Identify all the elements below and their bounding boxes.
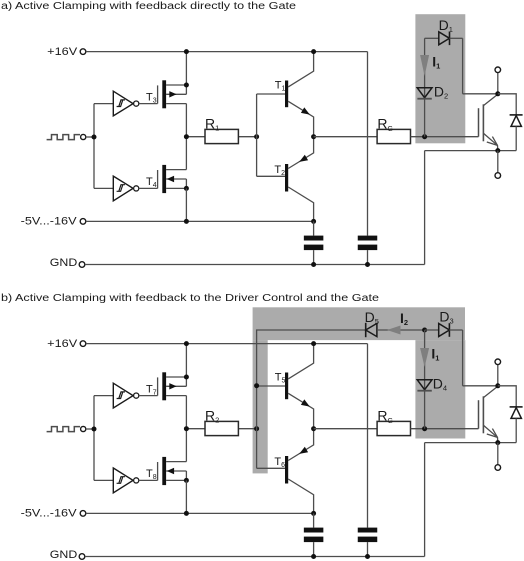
wire D1 cathode to collector sense	[462, 38, 464, 94]
wire T4 drain to output node	[185, 137, 187, 170]
node GND rail (a)	[50, 257, 425, 269]
shaded feedback region left strip (circuit b)	[253, 340, 268, 473]
current arrow I2	[387, 310, 408, 335]
wire emitter feedback to GND (a)	[424, 151, 426, 265]
junction gate clamp node	[422, 134, 427, 139]
wire input to inverter inputs	[94, 396, 113, 481]
wire T3 drain to output node	[185, 104, 187, 137]
junction -5V rail left	[184, 219, 189, 224]
transistor T6 PNP	[257, 429, 314, 514]
wire inverter U1b output to gate	[139, 187, 158, 189]
svg-text:+16V: +16V	[47, 46, 78, 58]
shaded feedback region top band (circuit b)	[253, 307, 465, 340]
wire D3 cathode to collector sense (b)	[462, 330, 464, 386]
wire emitter node (b)	[425, 442, 517, 444]
wire decoupling branch to C2	[367, 52, 369, 236]
svg-text:b) Active Clamping with feedba: b) Active Clamping with feedback to the …	[1, 293, 380, 304]
wire base line of push-pull driver	[256, 94, 258, 176]
wire RG to IGBT gate	[411, 136, 479, 138]
resistor R2	[205, 408, 238, 436]
svg-text:GND: GND	[50, 549, 78, 561]
transistor T1 NPN	[257, 52, 314, 137]
inverter U2b (Schmitt trigger)	[113, 468, 138, 493]
wire clamp branch to gate (b)	[424, 330, 426, 429]
node input square-wave (a)	[47, 134, 94, 139]
capacitor C4	[358, 528, 378, 557]
junction collector (b)	[495, 383, 500, 388]
wire T3 source/body tie to +16V	[185, 52, 187, 95]
wire gate clamp branch (a)	[424, 38, 426, 136]
wire inverter U1a output to gate	[139, 103, 158, 105]
junction T3 source	[184, 83, 189, 88]
resistor RG gate resistor	[377, 116, 410, 144]
wire T4 body tie	[185, 179, 187, 188]
capacitor C3	[304, 513, 324, 556]
wire output node to resistor R2	[186, 428, 256, 430]
junction T4 source	[184, 186, 189, 191]
diode D5 (feedback to driver control)	[365, 309, 379, 337]
junction clamp top node (b)	[422, 328, 427, 333]
junction feedback to base line	[254, 383, 259, 388]
inverter U1b (Schmitt trigger)	[113, 176, 138, 201]
transistor T8 n-channel MOSFET	[158, 457, 187, 485]
junction input node	[92, 427, 97, 432]
capacitor C2	[358, 236, 378, 265]
svg-text:-5V...-16V: -5V...-16V	[21, 215, 78, 227]
freewheeling diode (a)	[498, 94, 523, 151]
junction T7 source	[184, 375, 189, 380]
wire emitter node (a)	[425, 150, 517, 152]
svg-text:GND: GND	[50, 257, 78, 269]
wire output node to resistor R1	[186, 136, 256, 138]
junction GND C2	[365, 262, 370, 267]
junction gate clamp node	[422, 426, 427, 431]
transistor T4 n-channel MOSFET	[158, 165, 187, 193]
wire D5 anode to clamp node	[377, 329, 425, 331]
shaded active-clamping region (circuit a)	[415, 14, 465, 143]
junction +16V rail right	[311, 341, 316, 346]
wire T7 drain to output node	[185, 396, 187, 429]
inverter U2a (Schmitt trigger)	[113, 383, 138, 408]
wire T8 body tie	[185, 471, 187, 480]
freewheeling diode (b)	[498, 386, 523, 443]
terminal emitter (b)	[495, 443, 501, 471]
svg-text:a) Active Clamping with feedba: a) Active Clamping with feedback directl…	[1, 1, 297, 12]
node +16V rail (b)	[47, 338, 367, 350]
current arrow I1 (b)	[420, 346, 439, 368]
wire collector node (b)	[463, 385, 498, 387]
node -5V...-16V rail (b)	[21, 507, 314, 519]
terminal emitter (a)	[495, 151, 501, 179]
transistor T5 NPN	[257, 344, 314, 429]
transistor T2 PNP	[257, 137, 314, 222]
transistor T3 p-channel MOSFET	[158, 80, 187, 108]
junction driver output node	[311, 426, 316, 431]
wire T4 source to -5V rail	[185, 188, 187, 221]
resistor R1	[205, 116, 238, 144]
capacitor C1	[304, 221, 324, 264]
node GND rail (b)	[50, 549, 425, 561]
terminal collector (a)	[495, 67, 501, 94]
junction T8 source	[184, 478, 189, 483]
junction GND C1	[311, 262, 316, 267]
node -5V...-16V rail (a)	[21, 215, 314, 227]
junction R2 right node (driver base line)	[254, 426, 259, 431]
resistor RG gate resistor	[377, 408, 410, 436]
wire driver output to gate resistor RG	[314, 136, 378, 138]
junction -5V rail right	[311, 219, 316, 224]
svg-text:+16V: +16V	[47, 338, 78, 350]
IGBT module (b)	[479, 386, 498, 442]
wire RG to IGBT gate	[411, 428, 479, 430]
junction +16V rail left	[184, 49, 189, 54]
wire decoupling branch to C4	[367, 344, 369, 528]
wire T8 drain to output node	[185, 429, 187, 462]
junction emitter (b)	[495, 440, 500, 445]
junction -5V rail right	[311, 511, 316, 516]
node +16V rail (a)	[47, 46, 367, 58]
junction R2 left node	[184, 426, 189, 431]
junction +16V rail left	[184, 341, 189, 346]
wire T7 source/body tie to +16V	[185, 344, 187, 387]
diode D3	[425, 309, 463, 337]
wire inverter U2a output to gate	[139, 395, 158, 397]
terminal collector (b)	[495, 359, 501, 386]
junction R1 left node	[184, 134, 189, 139]
inverter U1a (Schmitt trigger)	[113, 91, 138, 116]
junction driver output node	[311, 134, 316, 139]
junction input node	[92, 135, 97, 140]
wire feedback from D5 to driver base line	[257, 330, 366, 386]
junction collector (a)	[495, 91, 500, 96]
node input square-wave (b)	[47, 426, 94, 431]
svg-text:-5V...-16V: -5V...-16V	[21, 507, 78, 519]
wire driver output to gate resistor RG	[314, 428, 378, 430]
junction GND C1	[311, 554, 316, 559]
junction -5V rail left	[184, 511, 189, 516]
wire input to inverter inputs	[94, 104, 113, 189]
IGBT module (a)	[479, 94, 498, 150]
junction GND C2	[365, 554, 370, 559]
diode D2 (clamping zener)	[417, 84, 448, 101]
diode D4 (clamping zener)	[417, 376, 447, 393]
junction +16V rail right	[311, 49, 316, 54]
wire emitter feedback to GND (b)	[424, 443, 426, 557]
junction emitter (a)	[495, 148, 500, 153]
junction R1 right node (driver base line)	[254, 134, 259, 139]
shaded clamping region right strip (circuit b)	[415, 340, 465, 438]
wire T8 source to -5V rail	[185, 480, 187, 513]
diode D1	[425, 17, 463, 45]
wire base line of push-pull driver	[256, 386, 258, 468]
wire inverter U2b output to gate	[139, 479, 158, 481]
transistor T7 p-channel MOSFET	[158, 372, 187, 400]
current arrow I1 (a)	[420, 54, 440, 77]
wire collector node (a)	[463, 93, 498, 95]
